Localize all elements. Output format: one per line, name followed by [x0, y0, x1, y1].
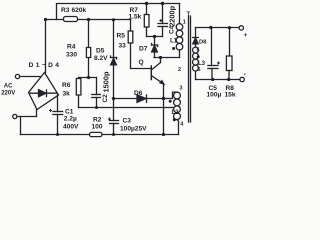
svg-text:R3: R3: [61, 7, 70, 14]
svg-text:L1: L1: [170, 39, 178, 45]
svg-text:100µ: 100µ: [207, 92, 222, 99]
svg-text:R6: R6: [62, 82, 71, 89]
svg-text:5: 5: [197, 48, 200, 54]
svg-text:330: 330: [66, 52, 77, 59]
svg-text:D8: D8: [199, 40, 207, 46]
svg-text:C1: C1: [65, 109, 74, 116]
svg-text:L2: L2: [172, 110, 180, 116]
svg-text:15k: 15k: [225, 92, 236, 99]
svg-text:2.2µ: 2.2µ: [64, 116, 77, 123]
svg-text:620k: 620k: [72, 7, 87, 14]
svg-text:400V: 400V: [63, 124, 79, 131]
svg-text:AC: AC: [4, 84, 13, 90]
svg-text:T: T: [187, 12, 191, 18]
svg-text:+: +: [244, 32, 248, 39]
svg-text:3k: 3k: [63, 91, 71, 98]
svg-text:33: 33: [119, 43, 127, 50]
svg-text:100µ25V: 100µ25V: [120, 126, 147, 133]
svg-text:D1~D4: D1~D4: [29, 62, 62, 69]
svg-text:1.5k: 1.5k: [129, 14, 142, 21]
svg-text:100: 100: [92, 124, 103, 131]
svg-text:R5: R5: [117, 33, 126, 40]
svg-text:1500p: 1500p: [102, 71, 111, 92]
svg-text:2: 2: [178, 67, 181, 73]
svg-text:3: 3: [180, 86, 183, 92]
svg-text:-: -: [244, 71, 247, 78]
svg-text:8.2V: 8.2V: [94, 55, 108, 62]
svg-text:C4: C4: [169, 25, 176, 34]
svg-text:R2: R2: [93, 117, 102, 124]
svg-text:4: 4: [180, 122, 183, 128]
svg-text:D6: D6: [134, 90, 143, 97]
svg-text:D5: D5: [96, 48, 105, 55]
svg-text:Q: Q: [139, 59, 144, 66]
svg-text:1: 1: [183, 20, 186, 26]
svg-text:C2: C2: [102, 94, 109, 103]
svg-text:D7: D7: [139, 46, 148, 53]
svg-text:6: 6: [198, 67, 201, 73]
svg-text:220V: 220V: [1, 91, 15, 97]
svg-text:2200p: 2200p: [168, 5, 177, 26]
svg-text:R4: R4: [67, 44, 76, 51]
svg-text:C3: C3: [123, 118, 132, 125]
